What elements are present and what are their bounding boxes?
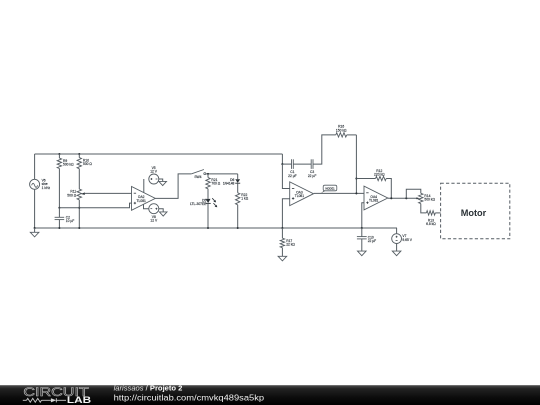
node OA4 plus rail <box>361 227 363 229</box>
node cap junction <box>281 163 283 165</box>
svg-text:500 Ω: 500 Ω <box>83 162 92 166</box>
node R12 output junction <box>390 197 392 199</box>
svg-text:TL081: TL081 <box>295 194 305 198</box>
node R10 top <box>78 153 80 155</box>
svg-text:22 kΩ: 22 kΩ <box>286 243 295 247</box>
wire OA4 plus input <box>362 203 364 228</box>
voltage source V6 <box>34 154 36 179</box>
svg-text:TL081: TL081 <box>137 199 147 203</box>
capacitor C10 <box>361 228 363 237</box>
svg-text:22 µF: 22 µF <box>308 174 317 178</box>
ground <box>34 227 36 229</box>
svg-text:1N4148: 1N4148 <box>223 182 235 186</box>
svg-text:LTL-307EE: LTL-307EE <box>190 202 207 206</box>
svg-text:1 kΩ: 1 kΩ <box>241 197 248 201</box>
resistor R13 <box>421 204 427 213</box>
wire top rail <box>35 153 283 155</box>
motor box <box>441 183 510 239</box>
resistor R12 <box>356 178 375 180</box>
node R9 top <box>58 153 60 155</box>
node C2 bottom <box>58 227 60 229</box>
wire OA3 output <box>314 192 364 194</box>
LED D5 <box>206 199 211 203</box>
capacitor C1 <box>282 163 291 165</box>
wire junction line <box>59 203 131 208</box>
voltage source V7 <box>396 228 398 234</box>
op-amp OA3 <box>290 182 314 206</box>
resistor R10 <box>78 154 80 158</box>
wire rail corner down <box>281 154 283 164</box>
wire OA4 output <box>388 197 418 199</box>
svg-text:500 kΩ: 500 kΩ <box>424 198 435 202</box>
voltage source V8 <box>144 204 149 208</box>
svg-text:12 V: 12 V <box>150 170 158 174</box>
ground for V8 <box>159 209 163 212</box>
node OA3 output junction <box>355 192 357 194</box>
svg-text:Motor: Motor <box>461 208 487 218</box>
potentiometer R14 <box>406 189 421 198</box>
svg-text:TL081: TL081 <box>369 199 379 203</box>
logo resistor symbol <box>23 399 27 401</box>
node R12 left <box>355 177 357 179</box>
svg-text:12 V: 12 V <box>150 219 158 223</box>
switch SW4 <box>191 170 204 174</box>
resistor R9 <box>58 154 60 158</box>
svg-text:22 µF: 22 µF <box>288 174 297 178</box>
svg-text:700 Ω: 700 Ω <box>211 182 220 186</box>
svg-text:220 kΩ: 220 kΩ <box>374 173 385 177</box>
svg-text:1 kHz: 1 kHz <box>42 186 51 190</box>
node R11 junction <box>78 207 80 209</box>
capacitor C3 <box>293 163 311 165</box>
node D5 bottom <box>207 227 209 229</box>
op-amp OA2 <box>132 187 156 211</box>
node loop junction <box>405 197 407 199</box>
resistor R21 <box>207 174 209 178</box>
svg-text:500 Ω: 500 Ω <box>67 193 76 197</box>
capacitor C2 <box>58 208 60 218</box>
voltage source V5 <box>143 179 145 193</box>
wire OA3 plus input <box>282 199 289 228</box>
wire R11 wiper to OA2 <box>84 192 131 194</box>
logo diode symbol <box>51 398 56 402</box>
svg-text:10 µF: 10 µF <box>66 219 75 223</box>
svg-text:http://circuitlab.com/cmvkq489: http://circuitlab.com/cmvkq489sa5kp <box>114 394 265 403</box>
svg-text:500 kΩ: 500 kΩ <box>63 163 74 167</box>
node R17 top <box>281 227 283 229</box>
ground for V5 <box>159 179 163 181</box>
resistor R22 <box>236 193 240 205</box>
svg-text:larissaos / Projeto 2: larissaos / Projeto 2 <box>114 384 183 393</box>
wire OA2 output <box>155 174 191 199</box>
potentiometer R11 <box>77 189 81 200</box>
svg-text:150 kΩ: 150 kΩ <box>336 128 347 132</box>
op-amp OA4 <box>364 186 388 210</box>
node R22 bottom <box>237 227 239 229</box>
svg-text:NODE1: NODE1 <box>325 186 335 190</box>
node R9 bottom <box>58 207 60 209</box>
resistor R17 <box>281 228 283 238</box>
diode D6 <box>237 174 239 179</box>
svg-text:SW4: SW4 <box>194 175 201 179</box>
node NODE1 flag <box>321 190 327 193</box>
wire switch to D6 <box>206 173 238 175</box>
wire bottom rail <box>35 227 397 229</box>
node R11 bottom <box>78 227 80 229</box>
node R21 top <box>207 173 209 175</box>
svg-text:LAB: LAB <box>67 395 91 405</box>
svg-text:6.8 kΩ: 6.8 kΩ <box>426 222 436 226</box>
resistor R16 <box>313 135 336 164</box>
svg-text:9.65 V: 9.65 V <box>402 238 412 242</box>
svg-text:22 µF: 22 µF <box>368 239 377 243</box>
wire OA3 minus input <box>282 164 289 188</box>
